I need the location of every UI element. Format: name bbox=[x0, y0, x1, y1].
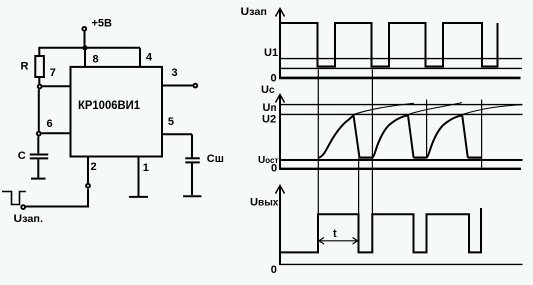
power terminal +5V bbox=[82, 18, 112, 31]
pin 5 wire bbox=[163, 134, 192, 157]
svg-text:Uвых: Uвых bbox=[250, 197, 279, 209]
Uc continuation thin curve 2 bbox=[407, 103, 462, 115]
pin 2 wire upper bbox=[87, 157, 89, 183]
svg-text:R: R bbox=[21, 61, 29, 73]
Uc charge curve 3 and discharge bbox=[427, 115, 468, 158]
svg-text:0: 0 bbox=[271, 162, 277, 174]
Csh bottom lead bbox=[191, 163, 193, 195]
svg-text:Uзап: Uзап bbox=[241, 6, 268, 18]
U1 level line bbox=[279, 58, 522, 60]
Uc residual flat bottom 1 bbox=[360, 157, 373, 159]
zero baseline diagram 1 bbox=[279, 77, 521, 80]
Uvyh vertical axis bbox=[276, 186, 285, 266]
svg-text:+5В: +5В bbox=[92, 18, 113, 30]
svg-text:Uп: Uп bbox=[263, 102, 277, 114]
capacitor C top lead bbox=[37, 136, 39, 153]
pin 8 wire bbox=[84, 48, 86, 68]
svg-text:t: t bbox=[333, 228, 337, 240]
Uc continuation thin curve 3 bbox=[461, 105, 522, 115]
svg-text:1: 1 bbox=[143, 162, 149, 174]
pin 1 wire bbox=[138, 157, 140, 196]
Uzap waveform bbox=[280, 23, 498, 67]
svg-text:Сш: Сш bbox=[207, 153, 224, 165]
Uc continuation thin curve 1 bbox=[353, 103, 415, 115]
Uc residual flat bottom 2 bbox=[414, 157, 427, 159]
timing line trigger 1 bbox=[317, 69, 319, 213]
ground for Csh bbox=[183, 195, 201, 197]
svg-text:КР1006ВИ1: КР1006ВИ1 bbox=[78, 98, 140, 112]
pin 6 wire bbox=[42, 132, 70, 134]
wire power rail bbox=[38, 47, 140, 49]
pin 3 wire bbox=[163, 85, 193, 87]
svg-text:C: C bbox=[18, 150, 26, 162]
low level line bbox=[279, 67, 522, 69]
capacitor Csh plates bbox=[185, 158, 200, 162]
Uvyh waveform bbox=[281, 208, 481, 252]
svg-text:4: 4 bbox=[146, 52, 153, 64]
pin 7 wire bbox=[42, 85, 70, 87]
svg-text:0: 0 bbox=[271, 264, 277, 276]
svg-text:5: 5 bbox=[168, 116, 174, 128]
U2 level line bbox=[279, 113, 523, 115]
ground for pin 1 bbox=[129, 196, 148, 198]
ground for C bbox=[31, 178, 46, 180]
svg-text:U2: U2 bbox=[262, 113, 276, 125]
pin 4 wire bbox=[139, 48, 141, 68]
timing line trigger 4 bbox=[481, 100, 483, 168]
node pin 2 bbox=[86, 184, 90, 188]
timing line trigger 3 bbox=[426, 100, 428, 158]
capacitor C plates bbox=[30, 155, 49, 159]
svg-text:7: 7 bbox=[50, 67, 56, 79]
trigger input terminal bbox=[21, 205, 25, 209]
zero baseline diagram 3 bbox=[279, 263, 523, 265]
node: R bottom terminal bbox=[38, 85, 42, 89]
capacitor C bottom lead bbox=[37, 159, 39, 177]
pulse width arrow t bbox=[319, 238, 358, 245]
junction dot on rail bbox=[82, 45, 87, 50]
Un supply level line bbox=[279, 104, 523, 106]
svg-text:Uc: Uc bbox=[261, 84, 275, 96]
Uzap vertical axis bbox=[276, 9, 285, 80]
Uc residual flat bottom 3 bbox=[468, 157, 482, 159]
node at pin 6 bbox=[37, 132, 41, 136]
svg-text:Uзап.: Uзап. bbox=[14, 213, 44, 225]
svg-text:U1: U1 bbox=[264, 47, 278, 59]
Uc charge curve 1 and discharge bbox=[318, 115, 360, 158]
svg-text:0: 0 bbox=[271, 73, 277, 85]
timing line pulse end 1 bbox=[358, 158, 360, 214]
Uc vertical axis bbox=[276, 95, 285, 170]
wire node to node bbox=[38, 89, 40, 131]
trigger pulse symbol bbox=[2, 192, 26, 205]
svg-text:3: 3 bbox=[172, 67, 178, 79]
op-amp/timer IC U1 box bbox=[71, 67, 163, 157]
svg-text:8: 8 bbox=[93, 54, 99, 66]
wire +5V drop to rail bbox=[84, 32, 86, 48]
resistor R body bbox=[35, 48, 44, 84]
svg-text:6: 6 bbox=[47, 118, 53, 130]
zero baseline diagram 2 bbox=[279, 168, 521, 170]
Uost level line bbox=[279, 159, 523, 161]
pin 2 wire lower bbox=[87, 189, 89, 207]
Uc charge curve 2 and discharge bbox=[372, 115, 413, 158]
output terminal node bbox=[193, 84, 197, 88]
trigger wire to pin 2 bbox=[26, 206, 89, 208]
svg-text:2: 2 bbox=[91, 161, 97, 173]
timing line trigger 2 bbox=[371, 69, 373, 213]
